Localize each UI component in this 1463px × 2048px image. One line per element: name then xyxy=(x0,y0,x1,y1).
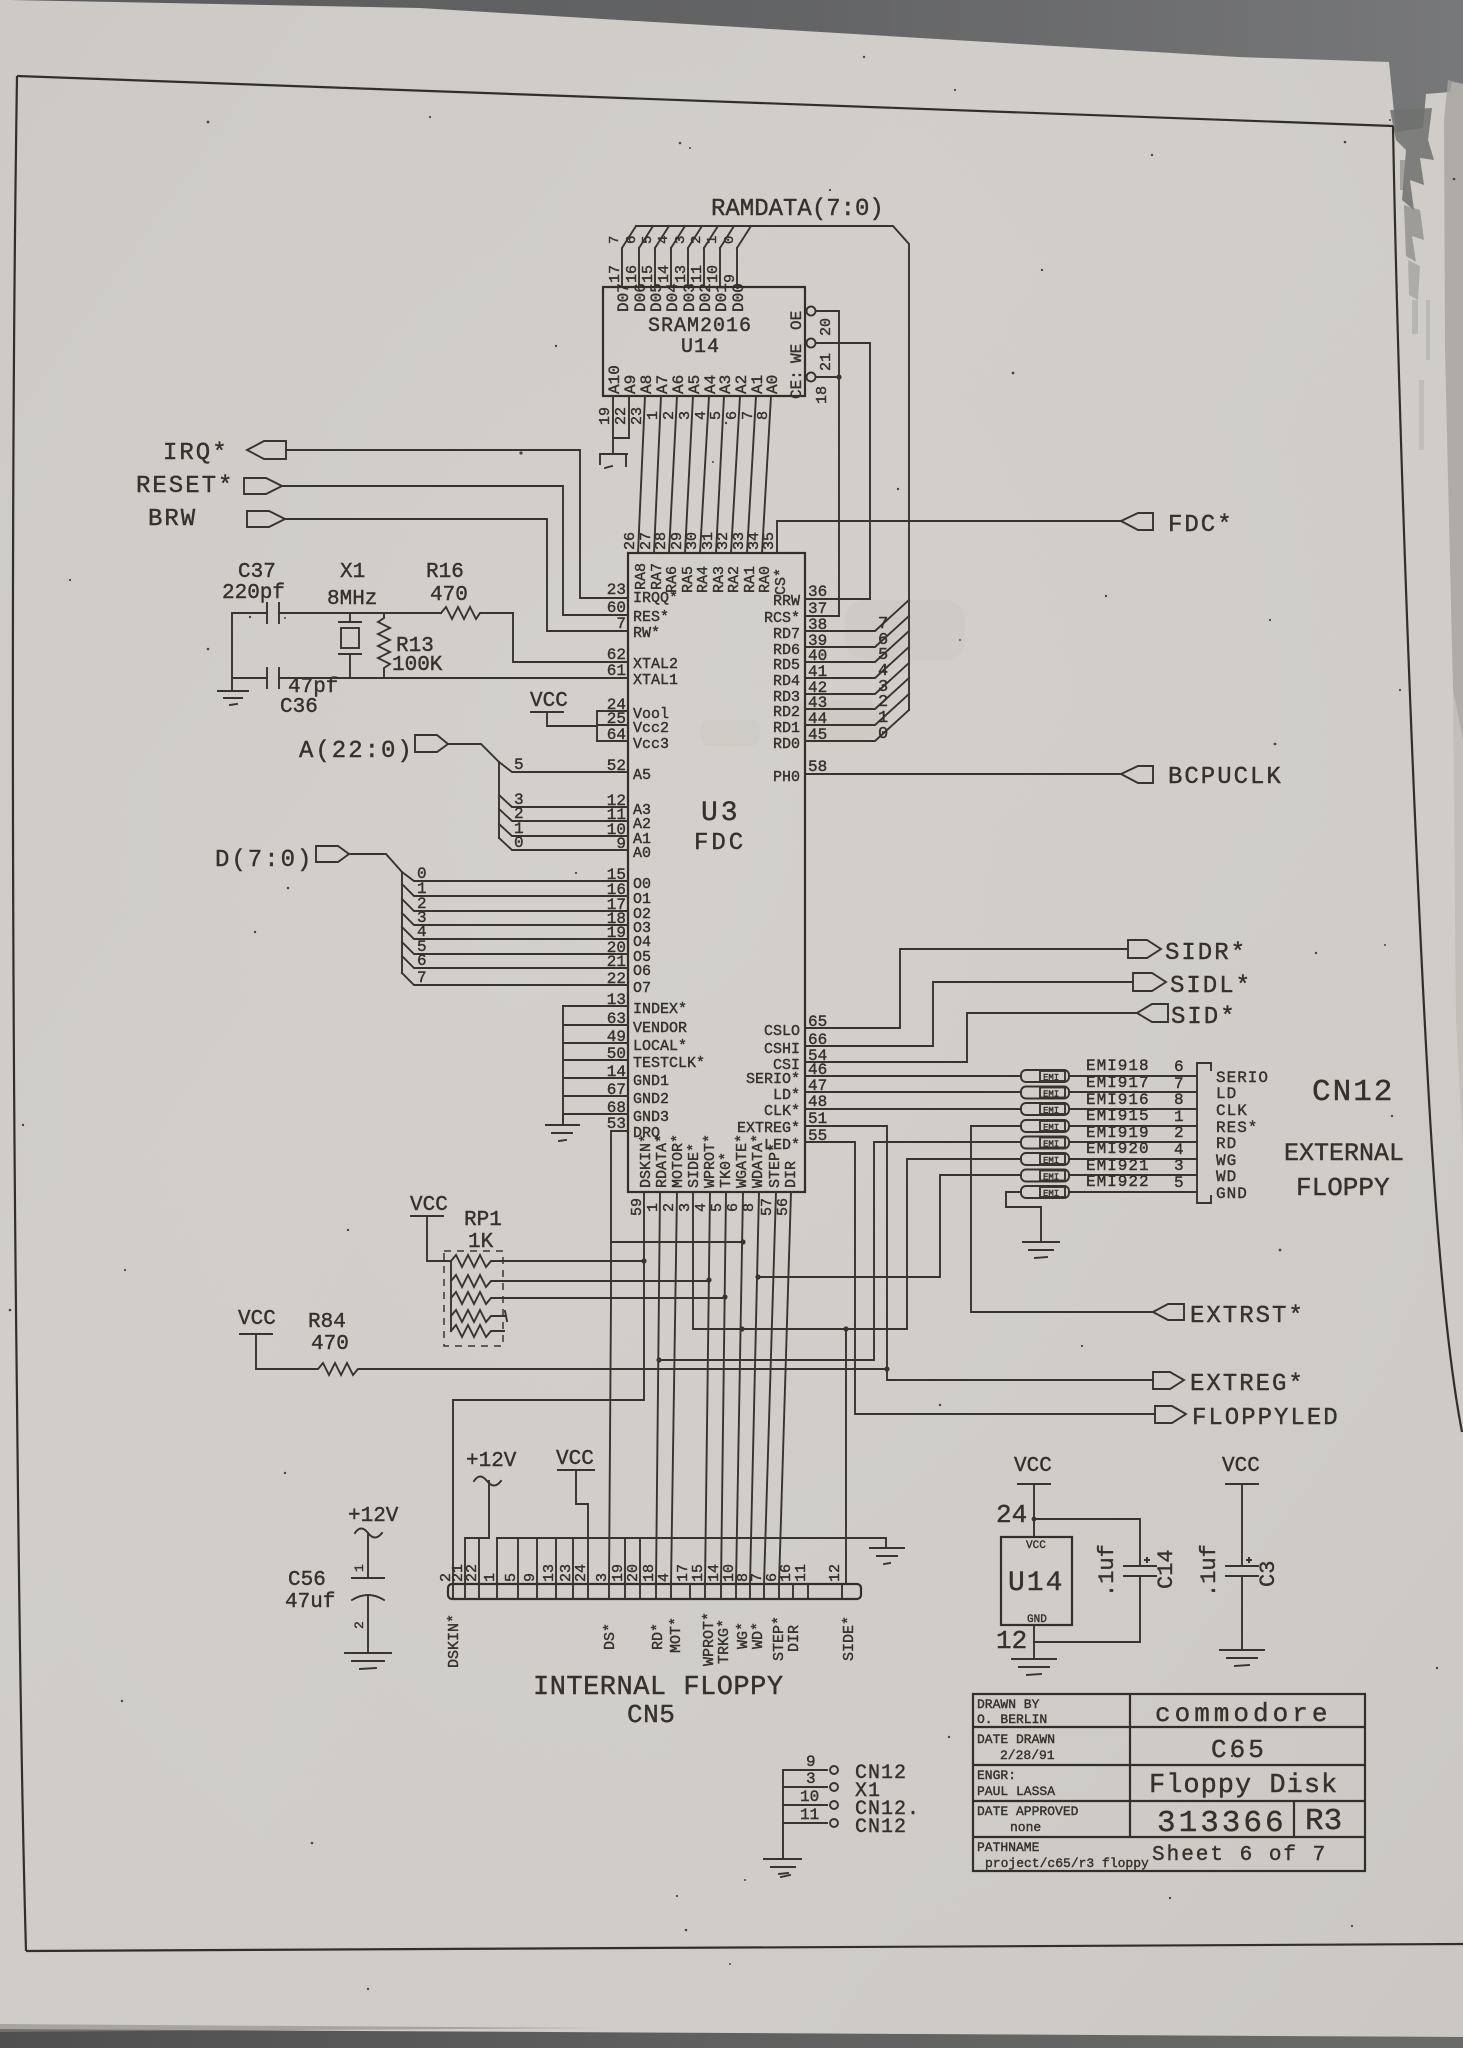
svg-text:TESTCLK*: TESTCLK* xyxy=(633,1055,705,1072)
emi filter EMI916 xyxy=(1021,1103,1069,1116)
svg-text:DATE DRAWN: DATE DRAWN xyxy=(977,1732,1055,1747)
svg-text:VCC: VCC xyxy=(556,1448,594,1471)
wire U14 vcc to C14 xyxy=(1034,1519,1140,1566)
svg-text:FLOPPYLED: FLOPPYLED xyxy=(1192,1405,1340,1432)
svg-text:2: 2 xyxy=(661,1203,678,1212)
svg-text:C3: C3 xyxy=(1256,1561,1281,1587)
wire R16 to XTAL2 xyxy=(513,613,628,662)
ground CN5 right xyxy=(870,1548,904,1564)
svg-text:EMI: EMI xyxy=(1043,1073,1059,1083)
svg-text:6: 6 xyxy=(417,952,427,970)
port EXTREG* xyxy=(1153,1372,1184,1389)
ground EMI xyxy=(1023,1242,1059,1258)
svg-text:C37: C37 xyxy=(238,561,276,584)
svg-text:9: 9 xyxy=(522,1573,539,1582)
svg-text:EXTRST*: EXTRST* xyxy=(1190,1303,1305,1330)
wire RRW pin36 stub xyxy=(805,598,870,600)
svg-text:3: 3 xyxy=(806,1770,816,1788)
wire CSHI to SIDL* xyxy=(805,982,1133,1046)
svg-text:EXTREG*: EXTREG* xyxy=(1190,1371,1305,1398)
wire D0 tap xyxy=(402,872,628,881)
svg-text:2: 2 xyxy=(689,236,705,244)
svg-text:EMI922: EMI922 xyxy=(1086,1173,1150,1191)
svg-text:RD2: RD2 xyxy=(773,704,800,721)
svg-text:DRAWN BY: DRAWN BY xyxy=(977,1697,1040,1712)
svg-text:6: 6 xyxy=(1174,1058,1184,1076)
svg-text:6: 6 xyxy=(624,236,640,244)
wire WG up to EMI920 xyxy=(907,1159,1021,1329)
svg-text:.1uf: .1uf xyxy=(1197,1544,1222,1597)
wire WE to vertical 870 down to RRW xyxy=(816,343,870,599)
wire U14 gnd to ground xyxy=(1033,1625,1035,1659)
svg-text:17: 17 xyxy=(607,265,624,283)
svg-text:14: 14 xyxy=(656,265,673,283)
resistor RP1-4 xyxy=(451,1310,507,1322)
port SIDR* xyxy=(1128,940,1161,958)
svg-text:CE:: CE: xyxy=(788,370,806,399)
svg-text:SIDE*: SIDE* xyxy=(841,1616,858,1661)
svg-text:LD: LD xyxy=(1216,1085,1237,1103)
svg-text:CLK*: CLK* xyxy=(764,1103,800,1120)
svg-text:3: 3 xyxy=(594,1573,611,1582)
svg-text:1: 1 xyxy=(352,1564,367,1572)
wire A2 to FDC RA2 xyxy=(731,396,740,553)
emi filter EMI915 xyxy=(1021,1120,1069,1133)
svg-text:24: 24 xyxy=(573,1564,590,1582)
wire CS* pin35 up and right to FDC* xyxy=(777,521,1121,553)
svg-text:28: 28 xyxy=(653,532,670,550)
svg-text:3: 3 xyxy=(1174,1157,1184,1175)
wire RDATA tap to EMI919 RD xyxy=(659,1142,1021,1360)
svg-text:A5: A5 xyxy=(633,767,651,784)
svg-text:CN5: CN5 xyxy=(627,1700,675,1730)
dark table band at top xyxy=(0,0,1463,132)
svg-text:19: 19 xyxy=(597,407,614,425)
CN5 pin stubs within bar xyxy=(453,1584,842,1597)
svg-text:16: 16 xyxy=(624,265,641,283)
svg-text:A0: A0 xyxy=(633,845,651,862)
svg-text:0: 0 xyxy=(878,725,888,744)
svg-text:20: 20 xyxy=(818,318,835,336)
FDC top pin labels RA8-RA0 CS* xyxy=(633,563,790,595)
svg-text:FDC*: FDC* xyxy=(1168,512,1234,539)
svg-text:O7: O7 xyxy=(633,980,651,997)
wire IRQ* to pin 23 xyxy=(286,450,628,598)
svg-text:R16: R16 xyxy=(426,561,464,584)
FDC U3 box xyxy=(628,553,805,1192)
svg-text:C14: C14 xyxy=(1154,1549,1179,1589)
dark torn column top-right xyxy=(1390,108,1434,210)
port SIDL* xyxy=(1133,973,1166,991)
CN5 pin numbers xyxy=(438,1564,844,1582)
stub 11 CN12 xyxy=(783,1822,827,1824)
port EXTRST* xyxy=(1153,1304,1184,1320)
svg-text:13: 13 xyxy=(541,1564,558,1582)
svg-text:.1uf: .1uf xyxy=(1095,1544,1120,1597)
svg-text:15: 15 xyxy=(690,1564,707,1582)
svg-text:CSHI: CSHI xyxy=(764,1041,800,1058)
svg-text:11: 11 xyxy=(689,265,706,283)
wire CSLO to SIDR* xyxy=(805,949,1128,1028)
ground FDC left xyxy=(546,1114,579,1141)
svg-text:RD7: RD7 xyxy=(773,626,800,643)
wire D bus xyxy=(349,854,402,973)
svg-text:VCC: VCC xyxy=(1026,1540,1046,1552)
svg-text:SIDE*: SIDE* xyxy=(686,1143,703,1188)
svg-text:220pf: 220pf xyxy=(222,582,285,605)
svg-text:35: 35 xyxy=(761,532,778,550)
wire RCS* pin37 stub xyxy=(805,615,839,617)
svg-text:SERIO*: SERIO* xyxy=(746,1071,800,1088)
svg-text:6: 6 xyxy=(725,1203,742,1212)
svg-text:RRW: RRW xyxy=(773,593,800,610)
ground C3 xyxy=(1220,1650,1264,1666)
svg-text:4: 4 xyxy=(656,1573,673,1582)
svg-text:PAUL LASSA: PAUL LASSA xyxy=(977,1784,1055,1799)
svg-text:57: 57 xyxy=(759,1198,776,1216)
svg-text:EXTERNAL: EXTERNAL xyxy=(1284,1139,1404,1168)
wire INDEX..GND3 common to ground xyxy=(563,1006,628,1122)
wire D3 tap xyxy=(402,913,628,925)
svg-text:O. BERLIN: O. BERLIN xyxy=(977,1712,1047,1727)
wire bottom node to XTAL1 xyxy=(279,677,628,679)
svg-text:D07: D07 xyxy=(615,283,633,312)
svg-text:11: 11 xyxy=(800,1806,819,1824)
title block lines xyxy=(973,1694,1365,1837)
svg-text:GND3: GND3 xyxy=(633,1109,669,1126)
resistor RP1-2 xyxy=(451,1275,709,1287)
svg-text:EMI915: EMI915 xyxy=(1086,1107,1150,1125)
ground sram address xyxy=(600,454,627,468)
wire STEP down to CN5 xyxy=(764,1192,776,1584)
svg-text:commodore: commodore xyxy=(1155,1699,1331,1729)
wire A2 tap xyxy=(499,809,628,821)
svg-text:3: 3 xyxy=(673,236,689,244)
svg-text:WE: WE xyxy=(788,344,806,363)
svg-text:U3: U3 xyxy=(701,798,741,829)
capacitor C14 .1uf xyxy=(1124,1558,1156,1576)
svg-text:CSLO: CSLO xyxy=(764,1023,800,1040)
wire RAMDATA bus horizontal xyxy=(636,226,909,710)
svg-text:D01: D01 xyxy=(713,283,731,312)
svg-text:WGATE*: WGATE* xyxy=(734,1134,751,1188)
svg-text:PH0: PH0 xyxy=(773,769,800,786)
svg-text:4: 4 xyxy=(656,236,672,244)
wire C3 to ground xyxy=(1241,1576,1243,1650)
svg-text:24: 24 xyxy=(996,1500,1027,1530)
wire sram A9 jog to A10 xyxy=(613,396,629,438)
svg-text:DSKIN*: DSKIN* xyxy=(638,1134,655,1188)
wire A1 to FDC RA1 xyxy=(747,396,756,553)
svg-text:RDATA*: RDATA* xyxy=(654,1134,671,1188)
port FLOPPYLED xyxy=(1155,1406,1186,1423)
wire WGATE down to CN5 xyxy=(736,1192,743,1584)
svg-text:10: 10 xyxy=(705,265,722,283)
port FDC* xyxy=(1121,513,1153,530)
right edge gray strip xyxy=(1444,80,1463,740)
svg-text:1: 1 xyxy=(705,236,721,244)
wire A4 to FDC RA4 xyxy=(700,396,709,553)
svg-text:RW*: RW* xyxy=(633,625,660,642)
wire MOTOR down to CN5 xyxy=(671,1192,677,1584)
svg-text:CN12: CN12 xyxy=(855,1816,907,1839)
svg-text:21: 21 xyxy=(818,353,835,371)
FDC right pin numbers xyxy=(808,583,827,1145)
wire D4 tap xyxy=(402,927,628,939)
wire A8 to FDC RA8 xyxy=(638,396,645,553)
svg-text:0: 0 xyxy=(722,236,738,244)
svg-text:MOTOR*: MOTOR* xyxy=(670,1134,687,1188)
ground bus above CN5 xyxy=(497,1538,886,1548)
svg-text:20: 20 xyxy=(625,1564,642,1582)
FDC bottom pin numbers xyxy=(629,1198,792,1216)
svg-text:4: 4 xyxy=(693,1203,710,1212)
svg-text:12: 12 xyxy=(996,1626,1027,1656)
wire A3 to FDC RA3 xyxy=(716,396,724,553)
wire CLK pin48 to EMI916 xyxy=(805,1108,1021,1110)
wire A5 to FDC RA5 xyxy=(685,396,693,553)
wire RD3 to bus xyxy=(805,663,909,694)
resistor RP1-5 xyxy=(451,1325,504,1337)
sram CE WE OE labels xyxy=(788,311,806,399)
svg-text:U14: U14 xyxy=(681,336,720,359)
capacitor C3 .1uf xyxy=(1226,1558,1258,1576)
wire D2 tap xyxy=(402,899,628,911)
svg-text:DSKIN*: DSKIN* xyxy=(446,1614,463,1668)
svg-text:RA4: RA4 xyxy=(695,566,712,593)
wire SIDE down jog right to CN5 pin12 xyxy=(693,1192,907,1584)
svg-text:XTAL1: XTAL1 xyxy=(633,672,678,689)
svg-text:XTAL2: XTAL2 xyxy=(633,656,678,673)
svg-text:9: 9 xyxy=(722,274,739,283)
svg-text:A0: A0 xyxy=(764,375,782,394)
svg-text:ENGR:: ENGR: xyxy=(977,1768,1016,1783)
emi filter EMI917 xyxy=(1021,1087,1069,1100)
svg-text:FDC: FDC xyxy=(694,830,746,857)
connector stubs CN12/X1 bottom xyxy=(782,1770,784,1859)
svg-text:RA6: RA6 xyxy=(664,566,681,593)
svg-text:SIDR*: SIDR* xyxy=(1165,940,1247,967)
svg-text:DATE APPROVED: DATE APPROVED xyxy=(977,1804,1079,1819)
wire A0 tap xyxy=(499,838,628,850)
svg-text:7: 7 xyxy=(607,236,623,244)
svg-text:D04: D04 xyxy=(664,283,682,312)
wire OE to vertical 839 xyxy=(816,311,839,616)
svg-text:9: 9 xyxy=(806,1753,816,1771)
emi filter EMI920 xyxy=(1021,1153,1069,1166)
wire A6 to FDC RA6 xyxy=(669,396,677,553)
wire C37 left to ground leg xyxy=(232,613,267,678)
svg-text:D(7:0): D(7:0) xyxy=(215,847,313,874)
FDC right pin labels xyxy=(737,593,800,1154)
svg-text:FLOPPY: FLOPPY xyxy=(1296,1173,1390,1203)
stub 9 CN12 xyxy=(783,1769,827,1771)
svg-text:5: 5 xyxy=(709,1203,726,1212)
svg-text:DIR: DIR xyxy=(786,1625,803,1652)
svg-text:WD: WD xyxy=(1216,1168,1237,1186)
sram data pins D07-D00 wires and bus taps xyxy=(622,226,751,287)
svg-text:+12V: +12V xyxy=(348,1505,399,1528)
svg-text:2: 2 xyxy=(352,1621,367,1629)
svg-text:12: 12 xyxy=(827,1564,844,1582)
svg-text:11: 11 xyxy=(793,1564,810,1582)
wire EXTREG pin51 down xyxy=(805,1126,1153,1380)
emi filter EMI921 xyxy=(1021,1170,1069,1183)
svg-text:RESET*: RESET* xyxy=(136,473,234,500)
wire A bus xyxy=(448,744,499,838)
svg-text:10: 10 xyxy=(800,1788,819,1806)
svg-text:RD4: RD4 xyxy=(773,673,800,690)
svg-text:C56: C56 xyxy=(288,1569,326,1592)
faint bleed-through blobs xyxy=(700,600,965,746)
svg-text:15: 15 xyxy=(640,265,657,283)
sram address pin numbers 19,22,23,1..8 xyxy=(597,407,772,425)
emi filter EMI918 xyxy=(1021,1070,1069,1083)
wire D1 tap xyxy=(402,884,628,896)
FDC left pin labels xyxy=(633,590,705,1142)
svg-text:Floppy Disk: Floppy Disk xyxy=(1149,1771,1338,1801)
wire SERIO pin46 to EMI918 xyxy=(805,1075,1021,1077)
svg-text:0: 0 xyxy=(514,834,524,852)
svg-text:RD0: RD0 xyxy=(773,736,800,753)
svg-text:PATHNAME: PATHNAME xyxy=(977,1840,1040,1855)
svg-text:TK0*: TK0* xyxy=(718,1152,735,1188)
title block outer xyxy=(973,1694,1365,1871)
svg-text:100K: 100K xyxy=(392,654,443,677)
svg-text:IRQ*: IRQ* xyxy=(163,440,229,467)
svg-text:SRAM2016: SRAM2016 xyxy=(648,315,752,338)
port SID* xyxy=(1137,1004,1168,1022)
svg-text:INDEX*: INDEX* xyxy=(633,1001,687,1018)
wire RD0 to bus xyxy=(805,710,909,741)
connector CN5 bar xyxy=(448,1584,861,1599)
svg-text:30: 30 xyxy=(684,532,701,550)
svg-text:2: 2 xyxy=(1174,1124,1184,1142)
svg-text:INTERNAL FLOPPY: INTERNAL FLOPPY xyxy=(533,1673,784,1703)
svg-text:GND: GND xyxy=(1027,1614,1047,1626)
wire EMI922 to ground xyxy=(1006,1192,1041,1242)
svg-text:STEP*: STEP* xyxy=(767,1143,784,1188)
emi filter EMI922 xyxy=(1021,1186,1069,1199)
svg-text:DS*: DS* xyxy=(602,1623,619,1650)
svg-text:IRQQ*: IRQQ* xyxy=(633,590,678,607)
ground CN12 stubs xyxy=(764,1859,801,1877)
wire DIR down to CN5 xyxy=(779,1192,791,1584)
svg-text:22: 22 xyxy=(464,1564,481,1582)
svg-text:Vcc3: Vcc3 xyxy=(633,736,669,753)
svg-text:RA8: RA8 xyxy=(633,563,650,590)
wire RD7 to bus xyxy=(805,600,909,631)
svg-text:X1: X1 xyxy=(340,561,365,584)
wire A1 tap xyxy=(499,824,628,836)
svg-text:RCS*: RCS* xyxy=(764,610,800,627)
svg-text:TRKG*: TRKG* xyxy=(716,1619,733,1664)
FDC top pin numbers 26-35 xyxy=(622,532,778,550)
svg-text:C65: C65 xyxy=(1211,1735,1267,1765)
svg-text:VCC: VCC xyxy=(238,1308,276,1331)
resistor R13 100K xyxy=(378,613,390,678)
svg-text:R3: R3 xyxy=(1305,1804,1342,1839)
wire DSKIN down to CN5 pin2 xyxy=(453,1192,644,1584)
svg-text:GND2: GND2 xyxy=(633,1091,669,1108)
svg-text:DIR: DIR xyxy=(783,1161,800,1188)
resistor RP1-3 xyxy=(451,1292,725,1304)
svg-text:O6: O6 xyxy=(633,963,651,980)
svg-text:VENDOR: VENDOR xyxy=(633,1020,687,1037)
FDC left pin numbers xyxy=(607,581,626,1133)
wire TK0 down to CN5 xyxy=(721,1192,726,1584)
svg-text:313366: 313366 xyxy=(1157,1806,1287,1841)
svg-text:WD*: WD* xyxy=(750,1622,767,1649)
svg-text:23: 23 xyxy=(607,581,626,599)
wire CE ties to 839 vertical xyxy=(816,376,839,378)
wire DRQ branch joins WGATE line xyxy=(611,1241,743,1243)
svg-text:5: 5 xyxy=(640,236,656,244)
svg-text:BCPUCLK: BCPUCLK xyxy=(1168,764,1283,791)
ground C56 xyxy=(345,1653,391,1669)
svg-text:D00: D00 xyxy=(730,283,748,312)
svg-text:GND: GND xyxy=(1216,1185,1248,1203)
emi filter EMI919 xyxy=(1021,1137,1069,1150)
wire sram A10 down xyxy=(612,396,614,454)
wire C37 right to node xyxy=(279,612,441,614)
wire EXTRST to EMI915 xyxy=(971,1126,1153,1312)
svg-text:A(22:0): A(22:0) xyxy=(299,738,414,765)
svg-text:RD*: RD* xyxy=(650,1623,667,1650)
svg-text:1: 1 xyxy=(482,1573,499,1582)
svg-text:Sheet 6 of 7: Sheet 6 of 7 xyxy=(1152,1844,1327,1867)
wire RDATA down to CN5 xyxy=(656,1192,660,1584)
ground crystal xyxy=(218,678,248,705)
svg-text:22: 22 xyxy=(613,407,630,425)
svg-text:RD1: RD1 xyxy=(773,720,800,737)
svg-text:MOT*: MOT* xyxy=(668,1617,685,1653)
svg-text:5: 5 xyxy=(1174,1174,1184,1192)
wire D7 tap xyxy=(402,973,628,985)
svg-text:WPROT*: WPROT* xyxy=(702,1134,719,1188)
wire RD2 to bus xyxy=(805,678,909,709)
wire A5 tap xyxy=(499,762,628,772)
wire RESET* to pin 60 xyxy=(282,486,628,615)
svg-text:RD5: RD5 xyxy=(773,657,800,674)
svg-text:BRW: BRW xyxy=(148,506,197,533)
svg-text:GND1: GND1 xyxy=(633,1073,669,1090)
svg-text:470: 470 xyxy=(311,1333,349,1356)
svg-text:5: 5 xyxy=(514,756,524,774)
svg-text:5: 5 xyxy=(503,1573,520,1582)
svg-text:VCC: VCC xyxy=(1014,1455,1052,1478)
svg-text:RAMDATA(7:0): RAMDATA(7:0) xyxy=(711,196,884,223)
sram CE inverter bubble pin 18 xyxy=(807,373,816,382)
port BCPUCLK xyxy=(1121,766,1153,783)
CN12 pin labels xyxy=(1216,1069,1269,1203)
svg-text:LD*: LD* xyxy=(773,1087,800,1104)
connector CN12 bar xyxy=(1197,1063,1211,1203)
svg-text:WDATA*: WDATA* xyxy=(750,1134,767,1188)
svg-text:RES*: RES* xyxy=(633,609,669,626)
svg-text:EMI917: EMI917 xyxy=(1086,1074,1150,1092)
svg-text:18: 18 xyxy=(814,386,831,404)
ground U14 xyxy=(1012,1659,1056,1675)
wire WPROT down to CN5 xyxy=(705,1192,710,1584)
wire C14 down to gnd leg xyxy=(1034,1576,1140,1642)
wire A3 tap xyxy=(499,795,628,807)
sram address pin labels A10..A0 xyxy=(606,365,782,394)
svg-text:VCC: VCC xyxy=(1222,1455,1260,1478)
stub 10 CN12 xyxy=(783,1804,827,1806)
wire LED pin55 down to FLOPPYLED xyxy=(805,1142,1155,1414)
resistor RP1-1 xyxy=(451,1255,644,1267)
